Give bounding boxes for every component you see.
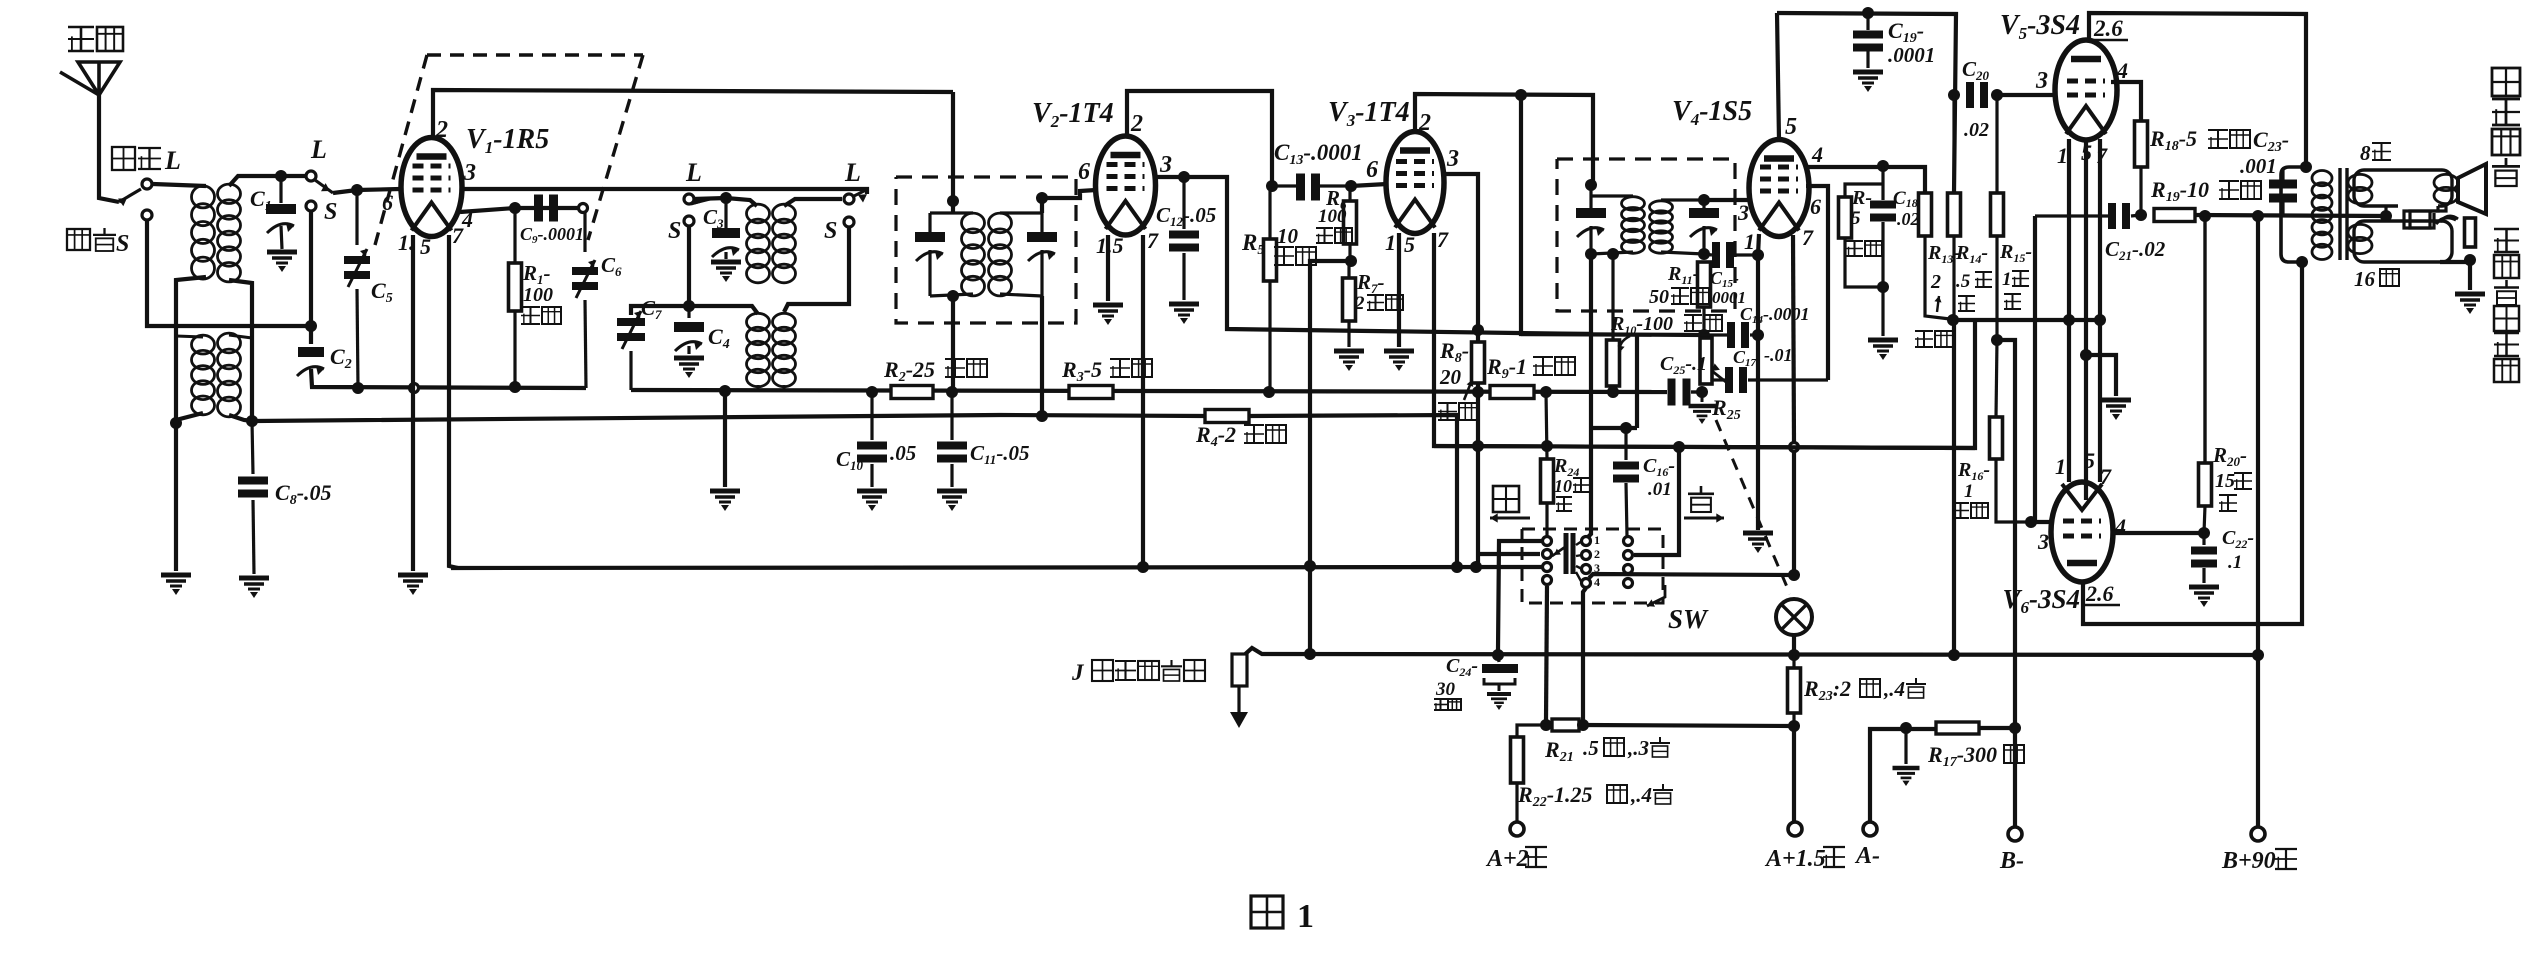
label A+1.5V [1764,846,1826,872]
node R18 C21 R19 [2135,209,2147,221]
IFT1 left varcap [915,232,945,261]
wire IFT1 to V2 grid [1042,190,1096,213]
svg-text:10: 10 [1554,476,1572,496]
svg-text:V6-3S4: V6-3S4 [2002,584,2080,617]
capacitor C6 trimmer [583,212,586,252]
svg-text:3: 3 [463,160,476,186]
capacitor C1 [279,176,282,203]
svg-text:1: 1 [2057,143,2068,168]
label R23-2ohm [1803,676,1851,704]
label R7-2M [1356,270,1385,296]
switch left contacts [1543,537,1552,546]
tube V3 1T4 [1386,132,1444,234]
svg-text:V2-1T4: V2-1T4 [1032,98,1114,131]
svg-text:1: 1 [1385,230,1396,255]
wire S2 down to C2 [309,212,313,344]
ground pin1 line [1743,533,1773,553]
switch rotor contacts [1582,537,1591,546]
label 短波S [67,228,116,251]
ground C3 [711,262,741,282]
ground C11 [937,491,967,511]
switch arm L4 [854,190,866,196]
label 8 ohm [2360,141,2371,165]
resistor R9 [1490,386,1534,399]
node R10 top [1607,248,1619,260]
wire antenna lead [99,93,119,202]
wire volume line [1310,261,1351,656]
wire V2 pin15 gnd [1106,235,1110,301]
label C8-.05 [275,480,332,508]
V2 pin2 label [1130,111,1143,137]
svg-text:7: 7 [1147,228,1159,253]
pin4 label [461,207,473,232]
IFT2 right varcap [1689,208,1719,237]
capacitor C10 [870,392,873,440]
wire V2 pin3 [1155,177,1591,334]
label R9-1M [1486,354,1527,382]
resistor R8 [1472,342,1485,383]
speaker [2458,164,2486,214]
node Bplus drop [2252,210,2264,222]
svg-text:C12-.05: C12-.05 [1156,203,1216,229]
node L3 osc [684,194,694,204]
resistor R12 [1845,184,1883,197]
capacitor C12 [1182,177,1185,229]
ground V2 [1093,305,1123,325]
svg-text:R8-: R8- [1439,338,1469,366]
output transformer primary loop [2281,167,2306,262]
OPT primary coil [2312,171,2332,260]
node R20 top [2199,210,2211,222]
svg-text:SW: SW [1668,604,1709,634]
switch arm antenna [119,189,141,202]
wire T1 coils to ground bus [176,277,206,423]
svg-text:6: 6 [1810,194,1821,219]
V3 pin6 label [1366,157,1378,183]
label C22-.1 [2222,527,2254,551]
pin1 label [398,230,415,255]
wire switch row4 to R21 [1546,586,1547,721]
switch wiper arrow [1552,547,1565,556]
node R23 bottom [1788,720,1800,732]
IFT1 left loop [930,211,973,214]
node R8 top [1472,324,1484,336]
node pin1 line [1752,249,1764,261]
node R17 gnd [1900,722,1912,734]
top line B plus left [1777,13,1956,193]
V4 pin5 label [1785,114,1797,140]
svg-text:4: 4 [2116,58,2128,83]
label V6-3S4 [2002,584,2080,617]
svg-text:10: 10 [1277,224,1299,248]
node C20 right [1991,89,2003,101]
terminal A2 [1510,822,1524,836]
label R16-1M [1957,459,1990,483]
svg-text:S: S [324,199,337,225]
stub switch row2 [1478,552,1540,556]
svg-text:C9-.0001: C9-.0001 [520,224,584,246]
node R25 top [1698,329,1710,341]
V2 pin3 label [1159,152,1172,178]
svg-text:C21-.02: C21-.02 [2105,237,2166,263]
node C18 top [1877,160,1889,172]
label V5-3S4 [2000,10,2080,43]
label 16 ohm [2354,267,2376,291]
svg-text:V1-1R5: V1-1R5 [466,124,549,157]
svg-text:R-: R- [1851,187,1872,209]
node IFT2 right top [1698,194,1710,206]
resistor R14 [1952,95,1955,193]
svg-text:C14-.0001: C14-.0001 [1740,304,1810,326]
svg-text:.02: .02 [1897,209,1920,229]
V3 pin2 label [1418,110,1431,136]
resistor R22 [1517,725,1546,737]
node center tap [2080,349,2092,361]
switch right contacts [1624,537,1633,546]
wire V3 pin3 down [1444,174,1478,567]
wire 16ohm to ground [2440,262,2470,290]
pin3 label [463,160,476,186]
svg-text:V5-3S4: V5-3S4 [2000,10,2080,43]
label V3-1T4 [1328,97,1410,130]
node R21 right [1577,719,1589,731]
wire center tap ground [2086,355,2116,396]
label C13-.0001 [1274,140,1363,168]
16 ohm winding [2354,221,2452,262]
wire V1 grid line to osc [462,189,867,194]
svg-text:C8-.05: C8-.05 [275,480,332,508]
node C18 bottom [1877,281,1889,293]
label R12-15M [1851,187,1872,209]
node gnd1 [170,417,182,429]
label C19-.0001 [1888,18,1924,46]
resistor R10 [1611,254,1614,340]
node volume jack [1304,648,1316,660]
resistor R19 [2154,209,2195,222]
node lamp top [1788,569,1800,581]
label C14-.0001 [1740,304,1810,326]
svg-text:.5: .5 [1956,271,1971,292]
label C1 [250,186,272,214]
V3 pin3 label [1446,146,1459,172]
label SW [1668,604,1709,634]
node ext jack [2464,254,2476,266]
label figure 1 [1251,896,1283,928]
wire V5 pin4 plate [2111,82,2141,121]
wire T3 right top to L4 [784,199,842,206]
node S3 [684,216,694,226]
svg-text:A+1.5: A+1.5 [1764,846,1826,872]
dashed gang link [1716,420,1790,594]
node R1 bottom [509,381,521,393]
IFT1 right coil [989,213,1012,296]
node IFT1 rail [1036,410,1048,422]
label R2-25k [883,357,935,385]
node C4 [683,300,695,312]
dashed gang outline left [375,55,427,245]
svg-text:7: 7 [1437,227,1449,252]
ground R25 [1701,392,1704,402]
svg-text:3: 3 [1159,152,1172,178]
antenna transformer T1 primary [192,186,215,279]
ground C22 [2189,587,2219,607]
wire grid V6 [2031,520,2053,524]
label R18-5k [2149,126,2197,154]
svg-text:5: 5 [1404,232,1415,257]
label C5 [371,278,393,306]
label B- [1999,848,2024,874]
OPT core [2340,168,2347,260]
node R8 bus [1472,440,1484,452]
IFT1 right loop [1000,211,1042,214]
node OPT top [2300,161,2312,173]
wire osc gnd [723,391,727,487]
wire IFT1 right bottom to rail [1040,296,1044,416]
label V6 2.6 [2085,581,2114,606]
terminal B90 [2251,827,2265,841]
label L4 [844,158,861,187]
capacitor C16 [1613,462,1639,483]
resistor R16 [1990,417,2003,459]
IFT2 right loop [1661,198,1704,201]
svg-text:16: 16 [2354,267,2376,291]
ground C10 [857,491,887,511]
svg-text:L: L [844,158,861,187]
wire rotor bottom to R21 [1583,588,1586,721]
label C10-.05 [836,447,864,473]
node top line [1515,89,1527,101]
svg-text:.05: .05 [890,441,916,465]
node L1 [142,179,152,189]
capacitor C14 [1704,333,1727,336]
dashed gang outline top [427,53,643,56]
svg-text:2: 2 [435,117,448,143]
node C5 on rail [352,382,364,394]
V3 pin15 label [1385,230,1396,255]
label 收 [1493,486,1519,512]
V4 pin7 label [1802,225,1814,250]
svg-text:7: 7 [2100,464,2112,489]
ground input [161,575,191,595]
label R6-100k [1325,186,1347,212]
wire B90 vertical [2256,216,2260,827]
svg-text:2: 2 [1930,271,1941,293]
node B90 bus [2252,649,2264,661]
svg-text:.1: .1 [2228,552,2242,573]
pin7 label [452,223,464,248]
node S junction [305,320,317,332]
node A drop bus [1948,649,1960,661]
label R11-50k [1667,263,1699,287]
IFT2 left varcap [1576,208,1606,237]
IF transformer 2 shield box [1557,159,1735,311]
A15 bus [1242,648,2258,657]
capacitor C5 trimmer [355,190,358,245]
wire row2 drop [1634,447,1679,555]
svg-text:2: 2 [1130,111,1143,137]
label S4 [824,218,837,244]
svg-text:S: S [116,231,129,257]
resistor R13 [1919,193,1932,236]
node R21 left [1540,719,1552,731]
antenna transformer T1 secondary [218,184,241,282]
V2 pin6 label [1078,159,1090,185]
label R3-5k [1061,357,1102,385]
V5 pin4 label [2116,58,2128,83]
svg-text:A-: A- [1854,843,1880,869]
capacitor C21 [2035,214,2108,217]
node pin4 [509,202,521,214]
capacitor C9 [534,195,558,222]
svg-text:3: 3 [1446,146,1459,172]
wire T1 sec top to C1 node [229,176,305,186]
resistor R18 [2135,121,2148,167]
capacitor C23 [2281,170,2284,180]
node R24 bus [1541,440,1553,452]
wire R19 to output [2195,215,2386,216]
node grid V6 [2025,516,2037,528]
svg-text:B+90: B+90 [2221,848,2276,874]
wire grid V3 [1351,184,1387,186]
V6 pin7 label [2100,464,2112,489]
svg-text:S: S [824,218,837,244]
resistor R20 [2203,216,2206,463]
IFT2 left loop [1589,185,1592,208]
label R10-100k [1610,313,1673,337]
node R15 bottom [1991,334,2003,346]
svg-text:R22-1.25: R22-1.25 [1517,782,1593,810]
label C24-30 [1446,655,1478,679]
label V5 2.6 [2093,16,2123,41]
tube V5 3S4 [2055,40,2117,140]
node IFT2 left bottom [1585,248,1597,260]
capacitor C20 [1966,82,1988,108]
label R1-100k [522,261,551,287]
node fil7 [2094,314,2106,326]
antenna [60,62,120,95]
wire lamp feed line [1589,574,1794,578]
wire A bus drop [1952,320,1956,655]
capacitor C15 [1704,254,1712,255]
label R24-10k [1553,455,1579,479]
label C12-.05 [1156,203,1216,229]
node C20 left [1948,89,1960,101]
svg-text:C13-.0001: C13-.0001 [1274,140,1363,168]
resistor R6 [1348,186,1351,201]
svg-text:1: 1 [1594,533,1600,547]
label C17-.01 [1733,347,1757,369]
wire S1 down to S2 line [147,221,311,326]
wire OPT bottom to V6 loop [2083,262,2302,624]
node bus446 drop [1470,561,1482,573]
svg-text:C11-.05: C11-.05 [970,441,1030,467]
wire L1 to antenna coil [153,184,206,186]
label C18-.02 [1893,188,1924,210]
node C12 [1178,171,1190,183]
wire B plus drop [1521,95,1591,334]
svg-text:,.4: ,.4 [1630,783,1652,807]
wire feed IFT1 [951,92,955,213]
node V2 fil [1137,561,1149,573]
svg-text:100: 100 [523,284,553,306]
ground C4 [674,358,704,378]
node row2 drop [1673,441,1685,453]
label R14-.5M [1955,242,1988,266]
svg-text:6: 6 [1078,159,1090,185]
label C9-.0001 [520,224,584,246]
label A+2V [1485,846,1529,872]
V6 pin1 label [2055,454,2066,479]
node C13 left [1266,180,1278,192]
wire R17 right [1979,726,2015,730]
wire R21 R23 line [1583,725,1794,822]
ground C12 [1169,304,1199,324]
label 天線 [68,26,123,52]
svg-text:.01: .01 [1648,479,1672,500]
svg-text:L: L [164,146,181,175]
capacitor C8 [252,421,253,474]
tube V4 1S5 [1749,140,1809,237]
wire C21 to grid node [2031,216,2035,522]
crossing circle pin5 rail [410,384,419,393]
node osc gnd [719,385,731,397]
pilot lamp [1776,599,1812,635]
capacitor C11 [950,392,953,440]
node pin7 bus crossing [1790,443,1799,452]
resistor R21 [1552,719,1579,731]
label C11-.05 [970,441,1030,467]
node C10 [866,386,878,398]
wire A minus [1870,729,1936,822]
node IFT1 top [947,195,959,207]
node C8 top [246,415,258,427]
node spk tap [2380,210,2392,222]
node R8 rail [1472,386,1484,398]
svg-text:2.6: 2.6 [2093,16,2123,41]
svg-text:1: 1 [1297,898,1314,935]
svg-text:4: 4 [2114,514,2126,539]
node IFT1 right top [1036,192,1048,204]
svg-text:15: 15 [2215,470,2235,492]
wire V4 pin5 top [1777,13,1779,140]
label R5-10k [1241,230,1264,258]
capacitor C7 trimmer [631,306,689,315]
svg-text:S: S [668,218,681,244]
wire R16 [1996,340,1997,417]
ground C8 [239,578,269,598]
node C11 [946,386,958,398]
terminal B minus [2008,827,2022,841]
node C9 right [579,204,588,213]
filament bus [1434,446,1975,448]
node S2 [306,201,316,211]
label R13-2M [1927,242,1960,266]
label R4-2M [1195,422,1236,450]
node C16 [1620,422,1632,434]
V5 pin3 label [2035,68,2048,94]
svg-text:R17-300: R17-300 [1927,742,1997,770]
svg-text:.0001: .0001 [1888,43,1935,67]
V6 pin3 label [2037,529,2049,554]
resistor R15 [1995,95,1998,193]
label C6 [601,253,622,279]
node V6 pin4 [2198,527,2210,539]
node OPT bottom [2296,256,2308,268]
resistor R23 [1792,655,1795,668]
label C16-.01 [1643,455,1675,479]
svg-text:A+2: A+2 [1485,846,1529,872]
wire R11 bottom [1702,307,1705,338]
